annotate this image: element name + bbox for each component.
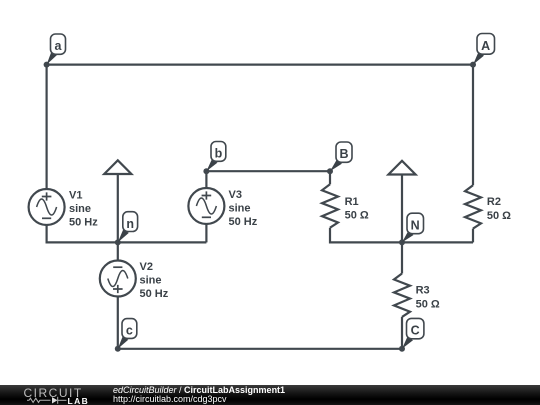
svg-text:50 Hz: 50 Hz — [69, 217, 98, 229]
svg-text:V3: V3 — [229, 189, 242, 201]
svg-text:V2: V2 — [140, 261, 153, 273]
svg-text:50 Ω: 50 Ω — [345, 210, 369, 222]
svg-text:sine: sine — [140, 275, 162, 287]
svg-text:50 Ω: 50 Ω — [487, 210, 511, 222]
svg-text:B: B — [339, 147, 348, 161]
svg-text:b: b — [215, 147, 223, 161]
svg-text:V1: V1 — [69, 189, 82, 201]
svg-text:50 Hz: 50 Hz — [140, 288, 169, 300]
svg-text:R1: R1 — [345, 196, 359, 208]
svg-text:a: a — [55, 39, 63, 53]
svg-text:sine: sine — [229, 203, 251, 215]
svg-text:50 Ω: 50 Ω — [416, 299, 440, 311]
svg-text:C: C — [411, 324, 420, 338]
svg-text:n: n — [126, 217, 134, 231]
svg-text:A: A — [481, 39, 490, 53]
svg-text:N: N — [411, 218, 420, 232]
svg-text:R3: R3 — [416, 285, 430, 297]
svg-text:50 Hz: 50 Hz — [229, 216, 258, 228]
svg-text:LAB: LAB — [68, 396, 90, 405]
svg-text:R2: R2 — [487, 196, 501, 208]
svg-text:sine: sine — [69, 203, 91, 215]
svg-text:c: c — [126, 324, 133, 338]
